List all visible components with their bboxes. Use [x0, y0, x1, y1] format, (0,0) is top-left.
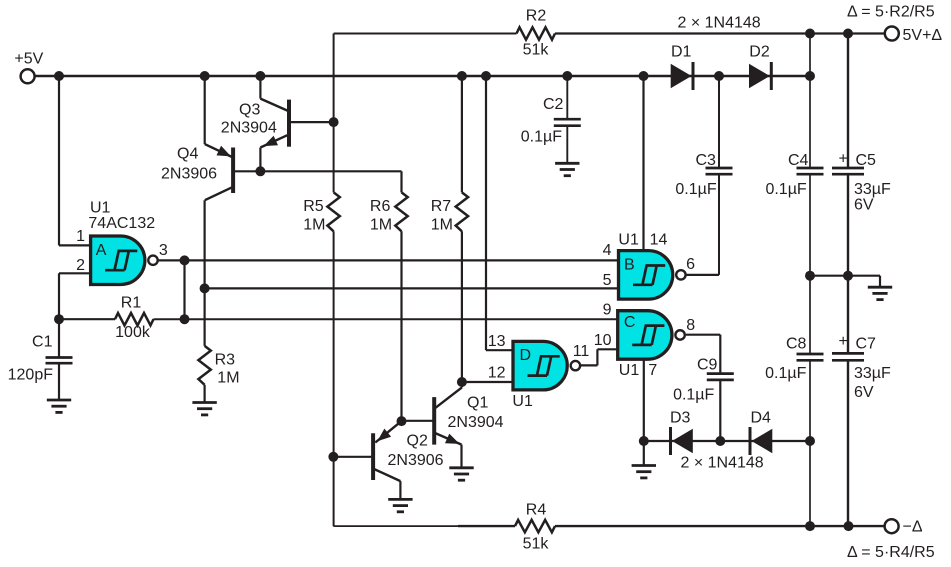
svg-text:Q3: Q3: [239, 102, 260, 119]
svg-text:1: 1: [76, 228, 85, 245]
svg-text:+: +: [839, 151, 848, 168]
svg-text:10: 10: [594, 332, 612, 349]
svg-text:D1: D1: [671, 44, 692, 61]
svg-text:C4: C4: [788, 152, 809, 169]
svg-text:2 × 1N4148: 2 × 1N4148: [678, 15, 761, 32]
svg-text:2N3904: 2N3904: [448, 414, 504, 431]
svg-text:0.1µF: 0.1µF: [765, 365, 806, 382]
svg-text:C: C: [624, 314, 636, 331]
svg-text:1M: 1M: [303, 217, 325, 234]
svg-text:U1: U1: [619, 362, 640, 379]
svg-text:5V+Δ: 5V+Δ: [903, 27, 943, 44]
svg-text:C3: C3: [696, 152, 717, 169]
svg-text:2N3906: 2N3906: [388, 452, 444, 469]
svg-text:R4: R4: [526, 502, 547, 519]
svg-text:Δ = 5·R2/R5: Δ = 5·R2/R5: [847, 4, 935, 21]
svg-text:R6: R6: [370, 198, 391, 215]
svg-text:0.1µF: 0.1µF: [675, 181, 716, 198]
svg-text:C5: C5: [856, 152, 877, 169]
svg-text:2: 2: [76, 257, 85, 274]
svg-text:C9: C9: [697, 357, 718, 374]
svg-text:1M: 1M: [217, 369, 239, 386]
svg-text:Δ = 5·R4/R5: Δ = 5·R4/R5: [847, 544, 935, 561]
svg-text:R1: R1: [121, 295, 142, 312]
svg-text:U1: U1: [618, 231, 639, 248]
svg-text:0.1µF: 0.1µF: [765, 181, 806, 198]
svg-text:R3: R3: [215, 352, 236, 369]
svg-text:U1: U1: [512, 393, 533, 410]
svg-text:C8: C8: [786, 336, 807, 353]
svg-text:+: +: [839, 333, 848, 350]
svg-text:120pF: 120pF: [8, 367, 54, 384]
svg-text:9: 9: [603, 302, 612, 319]
svg-text:B: B: [624, 256, 635, 273]
svg-text:33µF: 33µF: [854, 365, 891, 382]
svg-text:D2: D2: [749, 44, 770, 61]
svg-text:14: 14: [650, 231, 668, 248]
svg-text:D3: D3: [670, 409, 691, 426]
svg-text:A: A: [96, 242, 107, 259]
svg-text:2N3904: 2N3904: [221, 119, 277, 136]
svg-text:8: 8: [686, 317, 695, 334]
svg-text:R5: R5: [303, 198, 324, 215]
svg-text:R7: R7: [431, 198, 452, 215]
svg-text:5: 5: [603, 272, 612, 289]
svg-text:C1: C1: [32, 334, 53, 351]
svg-text:2N3906: 2N3906: [161, 166, 217, 183]
svg-text:100k: 100k: [115, 324, 151, 341]
svg-text:0.1µF: 0.1µF: [673, 387, 714, 404]
svg-text:C2: C2: [543, 96, 564, 113]
svg-text:33µF: 33µF: [854, 181, 891, 198]
svg-text:4: 4: [603, 242, 612, 259]
svg-text:1M: 1M: [370, 217, 392, 234]
svg-text:3: 3: [159, 242, 168, 259]
svg-text:1M: 1M: [431, 217, 453, 234]
svg-text:7: 7: [648, 362, 657, 379]
svg-text:R2: R2: [526, 8, 547, 25]
svg-text:12: 12: [488, 364, 506, 381]
svg-text:C7: C7: [856, 336, 877, 353]
svg-text:6V: 6V: [854, 197, 874, 214]
svg-text:74AC132: 74AC132: [88, 215, 155, 232]
svg-text:51k: 51k: [523, 42, 550, 59]
svg-text:0.1µF: 0.1µF: [521, 129, 562, 146]
svg-text:6V: 6V: [854, 384, 874, 401]
svg-text:Q2: Q2: [407, 433, 428, 450]
svg-text:11: 11: [573, 343, 590, 360]
svg-text:+5V: +5V: [14, 51, 43, 68]
svg-text:Q4: Q4: [177, 146, 198, 163]
svg-text:D: D: [520, 347, 532, 364]
svg-text:13: 13: [488, 333, 506, 350]
svg-text:2 × 1N4148: 2 × 1N4148: [681, 455, 764, 472]
svg-text:6: 6: [686, 256, 695, 273]
svg-text:D4: D4: [751, 409, 772, 426]
svg-text:51k: 51k: [523, 536, 550, 553]
svg-text:Q1: Q1: [467, 394, 488, 411]
svg-text:−Δ: −Δ: [903, 518, 923, 535]
svg-text:U1: U1: [90, 199, 111, 216]
